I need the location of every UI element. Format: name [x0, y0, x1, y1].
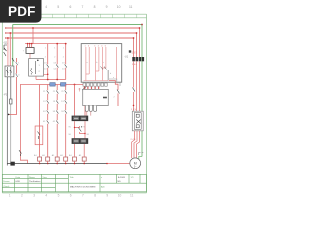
module dot	[37, 60, 39, 62]
bypass box mark	[103, 97, 107, 99]
wire ladder drop B	[56, 44, 58, 80]
module internals	[30, 61, 35, 75]
svg-text:TheStudent: TheStudent	[29, 180, 41, 183]
svg-text:11: 11	[130, 194, 134, 198]
wire rail to motor	[107, 163, 130, 165]
RN symbols	[136, 114, 141, 128]
contact C	[65, 65, 67, 68]
svg-text:-Q1: -Q1	[3, 41, 8, 45]
svg-text:-U1: -U1	[124, 55, 129, 59]
terminal strip X2	[72, 138, 89, 144]
svg-text:7: 7	[82, 194, 84, 198]
rung labels	[43, 91, 64, 123]
U1 bypass staircase	[109, 81, 118, 107]
terminal stubs to bypass	[84, 86, 98, 89]
title block values	[16, 176, 126, 189]
contact A	[47, 65, 49, 68]
svg-text:2: 2	[63, 57, 64, 59]
relay changeover contact	[78, 126, 81, 132]
node right column	[133, 105, 135, 107]
wire PE rail green	[13, 24, 142, 26]
node PE top	[141, 24, 143, 26]
soft starter U1 box	[81, 44, 122, 83]
contact bypass wire	[117, 90, 120, 94]
U1 internal labels	[85, 46, 107, 48]
svg-text:M: M	[134, 161, 137, 165]
svg-text:c: c	[103, 62, 104, 64]
svg-text:2: 2	[21, 194, 23, 198]
overload relay RN box	[132, 111, 143, 131]
svg-text:1: 1	[45, 48, 46, 50]
ladder rung 2	[47, 85, 49, 157]
wires below X2	[75, 144, 85, 157]
svg-text:9: 9	[106, 5, 108, 9]
frame column ticks	[40, 14, 137, 18]
wire ladder drop C	[65, 44, 67, 80]
labels 95 96	[69, 127, 90, 137]
svg-text:4: 4	[45, 194, 47, 198]
wire control branch rail	[25, 43, 66, 45]
svg-text:7: 7	[81, 5, 83, 9]
psu pins	[28, 44, 32, 48]
coil KM2	[46, 157, 50, 161]
U1 PE slash	[82, 86, 87, 90]
svg-text:1: 1	[54, 48, 55, 50]
wire enclosure left edge	[20, 85, 39, 164]
RN inner box	[134, 113, 141, 130]
wire tap vertical x33	[32, 28, 34, 44]
ladder rung 1	[39, 85, 41, 157]
svg-text:PDF: PDF	[8, 4, 36, 19]
wire elbow to riser	[9, 58, 17, 114]
contact gap bypass wire	[117, 90, 119, 94]
coil stubs	[40, 161, 85, 163]
node drop B	[56, 43, 58, 45]
wire fuse out	[10, 104, 12, 164]
U1 staircase gray	[109, 79, 120, 86]
svg-text:4: 4	[45, 5, 47, 9]
contact gaps upper	[47, 64, 67, 67]
svg-text:-F1: -F1	[4, 93, 8, 97]
svg-text:b: b	[96, 62, 97, 64]
svg-text:MACH KHOI DONG MEM: MACH KHOI DONG MEM	[70, 186, 95, 189]
wire L2 rail	[6, 32, 137, 34]
wires RN to motor	[132, 131, 140, 158]
wire pole out A	[6, 77, 8, 166]
enclosure box S2	[35, 126, 43, 145]
svg-text:1 3 5: 1 3 5	[131, 109, 137, 111]
contact gap right column	[133, 88, 135, 92]
svg-text:8: 8	[94, 194, 96, 198]
svg-text:5: 5	[57, 5, 59, 9]
rung contacts grid	[47, 91, 67, 124]
svg-text:8: 8	[94, 5, 96, 9]
stubs bypass to strip	[87, 112, 91, 116]
wire L3 drop left	[7, 38, 9, 66]
labels contacts	[44, 63, 65, 71]
rung contact gaps	[47, 90, 67, 124]
node bus2 end	[74, 84, 76, 86]
svg-text:10: 10	[117, 5, 121, 9]
U1 mid labels	[87, 62, 115, 79]
U1 internal wires	[84, 47, 117, 81]
svg-text:ND: ND	[118, 181, 122, 183]
bottom ruler numbers	[9, 194, 134, 198]
riser labels	[18, 63, 19, 77]
contact S3	[19, 150, 22, 156]
svg-text:6: 6	[70, 194, 72, 198]
node drop C	[65, 43, 67, 45]
coil KT1	[73, 157, 77, 161]
svg-text:3: 3	[18, 75, 19, 77]
node elbow	[8, 114, 10, 116]
svg-text:Name: Name	[29, 177, 36, 179]
rail junction block	[10, 162, 14, 166]
U1 internal black marks	[101, 67, 109, 81]
U1 bottom terminals	[83, 83, 107, 86]
svg-text:1: 1	[9, 194, 11, 198]
wire pole out B	[10, 77, 12, 99]
S2 contact	[38, 132, 41, 140]
svg-text:2: 2	[54, 57, 55, 59]
wire module stub to bus	[35, 76, 37, 79]
right drops from rails	[134, 28, 140, 57]
node tap L1	[32, 27, 34, 29]
wires below breaker	[134, 61, 140, 111]
svg-text:A 2009: A 2009	[118, 176, 126, 179]
control module K0 box	[29, 59, 44, 77]
node rail end	[106, 163, 108, 165]
node psu pins	[27, 43, 29, 45]
node web b	[84, 133, 85, 134]
node L2 tap	[9, 32, 11, 34]
coil labels	[34, 154, 82, 157]
wire box to drop A	[44, 73, 48, 75]
contact on right column	[133, 88, 136, 92]
rail source arrows	[5, 27, 8, 39]
left bottom mark	[79, 88, 81, 92]
terminal stub dots	[84, 87, 100, 88]
bypass bottom terminals	[85, 106, 96, 112]
svg-text:10: 10	[118, 194, 122, 198]
svg-text:1: 1	[63, 48, 64, 50]
svg-text:3: 3	[33, 194, 35, 198]
wire PE drop left	[12, 25, 14, 67]
node bus1 a	[47, 79, 49, 81]
page frame	[2, 14, 146, 193]
psu T1 box	[26, 48, 34, 54]
bottom rail N	[7, 163, 107, 165]
riser contacts	[16, 62, 18, 77]
title block labels	[3, 176, 134, 189]
wire bus2	[40, 84, 85, 86]
node right L2	[136, 32, 138, 34]
wire bus1	[36, 79, 66, 81]
rail nodes	[39, 163, 85, 165]
wire PE to motor	[139, 157, 142, 160]
title block	[2, 174, 146, 192]
coil H1	[82, 157, 86, 161]
fuse F1	[10, 99, 12, 104]
node bus1 b	[56, 79, 58, 81]
breaker Q1 poles	[6, 67, 12, 76]
svg-text:Date: Date	[16, 176, 21, 179]
coil KM4	[64, 157, 68, 161]
motor M1	[130, 158, 141, 169]
svg-text:Check: Check	[3, 186, 10, 188]
ladder rung 6 top	[84, 85, 86, 116]
F2 mark	[129, 50, 131, 52]
coil KM3	[55, 157, 59, 161]
ladder rung 4	[65, 85, 67, 157]
push button PB2	[61, 83, 66, 87]
svg-text:9: 9	[106, 194, 108, 198]
svg-text:5: 5	[58, 194, 60, 198]
svg-text:1 3 5: 1 3 5	[132, 52, 138, 55]
motor terminal marks	[139, 153, 144, 156]
svg-text:Drawn: Drawn	[3, 180, 10, 183]
ladder rung 5	[74, 85, 76, 116]
wire L2 drop left	[9, 33, 11, 66]
svg-text:d: d	[110, 73, 111, 75]
wire PE right drop	[141, 25, 143, 157]
ladder rung 3	[56, 85, 58, 157]
bypass box K box	[83, 89, 109, 105]
coil KM1	[38, 157, 42, 161]
breaker F2 block	[132, 57, 144, 61]
contact B	[56, 65, 58, 68]
wire ladder drop A	[47, 44, 49, 80]
node L3 tap	[7, 37, 9, 39]
svg-text:1: 1	[18, 63, 19, 65]
node web a	[74, 127, 75, 128]
drop pin labels	[45, 48, 64, 59]
push button PB1	[50, 83, 55, 87]
svg-text:2: 2	[45, 57, 46, 59]
node drop A join	[47, 74, 49, 76]
contact S1 on control wire	[12, 58, 14, 61]
svg-text:2 4 6: 2 4 6	[132, 64, 138, 66]
wire L3 rail	[6, 37, 134, 39]
relay contact web	[75, 121, 86, 138]
wire L1 rail	[6, 27, 140, 29]
svg-text:11: 11	[129, 5, 133, 9]
PDF badge	[0, 0, 42, 23]
svg-text:2 4 6: 2 4 6	[131, 139, 137, 141]
psu out stub	[29, 53, 31, 58]
node right L3	[133, 37, 135, 39]
top ruler numbers	[45, 5, 132, 9]
node right L1	[139, 27, 141, 29]
switch Q0 handle	[4, 45, 7, 56]
terminal strip X1	[72, 116, 89, 122]
svg-text:6: 6	[69, 5, 71, 9]
breaker Q1 box	[5, 66, 14, 77]
